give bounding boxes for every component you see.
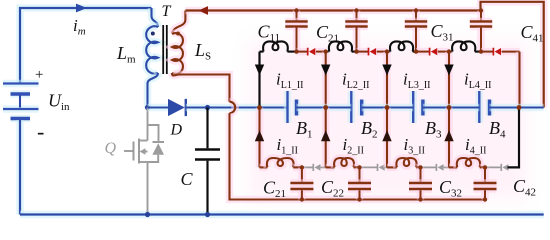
capacitor C21 (bottom) — [290, 165, 313, 202]
wire: L2 to diode 2 — [357, 48, 369, 56]
label i_3_II — [404, 135, 425, 157]
label i_L2_II — [342, 70, 370, 92]
label i_L1_II — [276, 70, 304, 92]
junctions on top inductor line — [294, 49, 483, 53]
battery Uin — [3, 84, 39, 119]
capacitor C22 — [348, 165, 371, 202]
svg-text:Lm: Lm — [116, 43, 136, 66]
battery cell B4 — [479, 91, 489, 123]
diode bottom 3 (inactive, gray) — [436, 164, 443, 171]
wire: L1 to diode 1 — [297, 48, 308, 56]
wire: top rail from secondary to right edge — [185, 2, 543, 108]
label B1 — [296, 118, 313, 141]
wire: battery string segment after cell B4 — [490, 104, 544, 112]
svg-text:C: C — [181, 169, 194, 189]
capacitor C42 — [474, 165, 497, 202]
diode D3 (top, active) — [430, 48, 438, 56]
capacitor C21 — [345, 8, 367, 51]
diode D4 (top, active) — [493, 48, 501, 56]
wire: diode D3 to next tap — [438, 48, 449, 56]
battery cell B1 — [288, 91, 297, 123]
svg-text:D: D — [170, 122, 183, 139]
label C21 (bottom) — [263, 178, 286, 201]
wire: gray diode 3 to next tap — [444, 166, 449, 168]
wire: tap 4 vertical (battery node 3 up to L4) — [445, 52, 453, 108]
label C41 — [521, 22, 544, 45]
inductor L2 — [326, 41, 357, 51]
wire: tap 3 down to bottom inductor 4 — [445, 108, 453, 168]
wire: tap 2 vertical (battery node 1 up to L2) — [322, 52, 330, 108]
current arrow i_3_II — [382, 130, 391, 141]
label C42 — [513, 176, 536, 199]
diode bottom 1 (inactive, gray) — [313, 164, 320, 171]
wire: L3 to diode 3 — [416, 48, 430, 56]
wire: diode D2 to next tap — [377, 48, 387, 56]
current arrow i_L2_II — [321, 65, 330, 76]
inductor bottom 2 — [326, 158, 360, 167]
battery cell B3 — [413, 91, 423, 123]
inductor L4 — [449, 41, 481, 51]
label C11 — [258, 22, 281, 45]
svg-text:+: + — [35, 67, 43, 83]
label C22 — [321, 177, 344, 200]
junction: drain node — [145, 105, 150, 110]
label C31 — [431, 21, 454, 44]
transformer T core — [163, 25, 167, 74]
svg-text:T: T — [162, 3, 172, 20]
inductor L1 — [260, 41, 297, 51]
junction: output node — [205, 105, 210, 110]
svg-text:-: - — [37, 119, 44, 144]
wire: tap 3 vertical (battery node 2 up to L3) — [383, 52, 391, 108]
svg-text:Uin: Uin — [48, 91, 70, 114]
wire: gray diode 4 to next tap — [508, 166, 509, 168]
wire: diode D1 to next tap — [316, 48, 326, 56]
current arrow i_2_II — [321, 130, 330, 141]
label Ls — [194, 40, 211, 63]
wire: tap 2 down to bottom inductor 3 — [383, 108, 391, 168]
label - (Uin negative) — [37, 119, 44, 144]
current arrow i_1_II — [255, 130, 264, 141]
current arrow i_L4_II — [444, 65, 453, 76]
wire: diode D4 to next tap — [502, 48, 520, 56]
current arrow i_L3_II — [382, 65, 391, 76]
current arrow i_4_II — [444, 130, 453, 141]
wire: diode D cathode to output node — [186, 104, 288, 112]
label Uin — [48, 91, 70, 114]
capacitor C32 — [409, 165, 432, 202]
capacitor C41 — [470, 8, 492, 51]
wire: bottom node 3 to gray diode 3 — [421, 166, 437, 168]
wire: tap 1 down to bottom inductor 2 — [322, 108, 330, 168]
wire: tap 1 vertical (battery node 0 up to L1) — [258, 52, 260, 108]
capacitor C31 — [405, 8, 427, 51]
transformer T primary winding Lm — [146, 8, 158, 74]
label Q — [105, 140, 117, 157]
wire: bottom network right end up to battery positive end — [508, 108, 520, 168]
transistor Q (MOSFET with body diode) — [124, 108, 164, 215]
junction: MOSFET source on bottom rail — [145, 212, 150, 217]
svg-text:C42: C42 — [513, 176, 536, 199]
label i_1_II — [277, 135, 298, 157]
label i_2_II — [343, 135, 364, 157]
diode D2 (top, active) — [369, 48, 377, 56]
wire: bottom blue return rail — [20, 211, 544, 219]
label C — [181, 169, 194, 189]
wire: tap 0 down to bottom inductor 1 — [256, 108, 264, 168]
diode bottom 4 (inactive, gray) — [501, 164, 508, 171]
label i_4_II — [465, 135, 486, 157]
capacitor C11 — [285, 8, 307, 51]
label + (Uin positive) — [35, 67, 43, 83]
wire: battery string segment after cell B3 — [423, 104, 479, 112]
capacitor C — [195, 108, 220, 215]
label B2 — [361, 118, 378, 141]
wire: top network right end down to battery positive end — [516, 52, 524, 108]
label D — [170, 122, 183, 139]
label T — [162, 3, 172, 20]
wire: L4 to diode 4 — [481, 48, 493, 56]
wire: primary bottom to drain node — [148, 73, 159, 108]
wire: battery string segment after cell B2 — [362, 104, 414, 112]
current arrow i_m — [76, 4, 87, 13]
wire: Uin positive terminal up and across to transformer primary — [20, 8, 152, 84]
diode bottom 2 (inactive, gray) — [378, 164, 385, 171]
transformer T secondary winding Ls — [172, 11, 185, 74]
diode D — [168, 99, 186, 116]
junctions on battery line — [257, 105, 521, 110]
wire: gray diode 2 to next tap — [385, 166, 387, 168]
wire: bottom node 4 to gray diode 4 — [485, 166, 501, 168]
label C21 (top) — [316, 22, 339, 45]
label i_L4_II — [464, 70, 492, 92]
wire: secondary return with crossover hop to bottom equalizer rail — [172, 73, 485, 200]
current arrow on top rail (pointing left) — [199, 6, 209, 15]
current arrow i_L1_II — [255, 65, 264, 76]
wire: gray diode 1 to next tap — [321, 166, 326, 168]
svg-text:Q: Q — [105, 140, 117, 157]
wire: battery string segment after cell B1 — [297, 104, 352, 112]
battery cell B2 — [351, 91, 361, 123]
diode D1 (top, active) — [308, 48, 316, 56]
inductor bottom 4 — [449, 158, 485, 167]
junction: capacitor C on bottom rail — [205, 212, 210, 217]
inductor L3 — [387, 41, 416, 51]
wire: bottom node 2 to gray diode 2 — [360, 166, 378, 168]
svg-text:C31: C31 — [431, 21, 454, 44]
label i_L3_II — [403, 70, 431, 92]
wire: bottom node 1 to gray diode 1 — [302, 166, 313, 168]
label Lm — [116, 43, 136, 66]
inductor bottom 1 — [260, 158, 302, 167]
inductor bottom 3 — [387, 158, 421, 167]
wire: drain node to diode D anode — [148, 104, 169, 112]
label i_m — [73, 16, 86, 38]
label C32 — [439, 177, 462, 200]
wire: Uin negative terminal down to bottom rail — [16, 120, 24, 215]
label B3 — [425, 118, 442, 141]
label B4 — [489, 118, 506, 141]
svg-text:LS: LS — [194, 40, 211, 63]
svg-text:im: im — [73, 16, 86, 38]
